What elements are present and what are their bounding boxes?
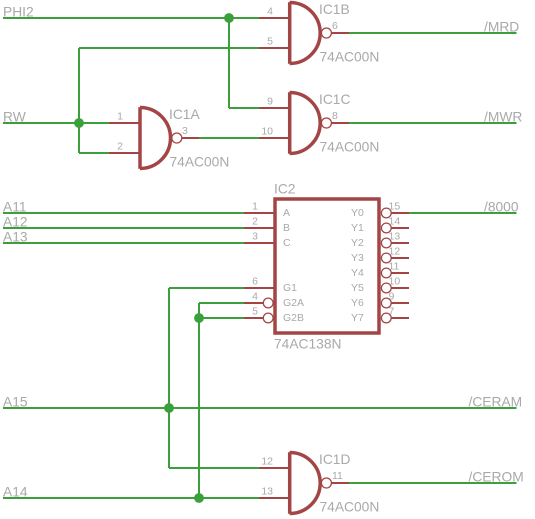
junction A15	[164, 403, 174, 413]
svg-text:Y2: Y2	[351, 237, 364, 249]
svg-text:14: 14	[389, 216, 401, 228]
svg-text:A14: A14	[3, 485, 28, 500]
svg-text:/MWR: /MWR	[484, 110, 522, 125]
pin 10 Y5	[381, 283, 391, 293]
junction PHI2	[224, 13, 234, 23]
svg-text:1: 1	[117, 111, 123, 123]
svg-text:Y5: Y5	[351, 282, 364, 294]
pin 12 Y3	[381, 253, 391, 263]
svg-text:13: 13	[389, 231, 401, 243]
svg-text:11: 11	[389, 261, 400, 273]
svg-text:Y4: Y4	[351, 267, 364, 279]
svg-text:A12: A12	[3, 215, 28, 230]
wire into IC1A pin 2	[79, 152, 110, 154]
wire A14	[3, 497, 260, 499]
svg-text:5: 5	[252, 306, 258, 318]
pin 11 Y4	[381, 268, 391, 278]
svg-text:Y3: Y3	[351, 252, 364, 264]
wire into IC1D pin 12	[169, 467, 260, 469]
gate IC1D 74AC00N	[259, 452, 379, 515]
wire /MWR	[349, 122, 517, 124]
wire vertical RW branch	[78, 48, 80, 153]
junction RW	[74, 118, 84, 128]
pin 9 Y6	[381, 298, 391, 308]
svg-text:6: 6	[332, 20, 338, 32]
pin 14 Y1	[381, 223, 391, 233]
svg-text:13: 13	[261, 486, 273, 498]
wire RW horizontal	[3, 122, 110, 124]
svg-text:C: C	[283, 237, 291, 249]
svg-text:74AC00N: 74AC00N	[170, 155, 230, 170]
svg-text:15: 15	[389, 201, 401, 213]
wire /8000	[409, 212, 517, 214]
svg-text:10: 10	[389, 276, 401, 288]
svg-text:/8000: /8000	[484, 200, 519, 215]
junction G2B	[194, 313, 204, 323]
svg-text:10: 10	[261, 126, 273, 138]
pin 2 B	[244, 227, 274, 229]
svg-text:12: 12	[261, 456, 273, 468]
wire PHI2 vertical to IC1C pin 9	[228, 18, 230, 108]
svg-text:2: 2	[252, 216, 258, 228]
svg-text:74AC00N: 74AC00N	[320, 500, 380, 515]
svg-text:IC1B: IC1B	[319, 2, 350, 17]
wire into IC1C pin 9	[229, 107, 260, 109]
wire A15	[3, 407, 517, 409]
wire A12	[3, 227, 244, 229]
svg-text:8: 8	[332, 110, 338, 122]
svg-text:IC2: IC2	[274, 182, 295, 197]
wire IC1A output to IC1C pin 10	[199, 137, 260, 139]
svg-text:9: 9	[389, 291, 395, 303]
svg-text:Y1: Y1	[351, 222, 364, 234]
svg-text:74AC138N: 74AC138N	[274, 337, 342, 352]
wire G2A vertical down to A14	[198, 303, 200, 498]
svg-text:12: 12	[389, 246, 401, 258]
svg-text:Y0: Y0	[351, 207, 364, 219]
svg-text:4: 4	[267, 6, 273, 18]
svg-text:/MRD: /MRD	[484, 20, 519, 35]
gate IC1B 74AC00N	[259, 2, 379, 65]
pin 5 G2B	[244, 317, 263, 319]
pin 3 C	[244, 242, 274, 244]
svg-text:5: 5	[267, 36, 273, 48]
pin 4 G2A	[244, 302, 263, 304]
pin 15 Y0	[381, 208, 391, 218]
svg-text:3: 3	[182, 125, 188, 137]
pin 13 Y2	[381, 238, 391, 248]
svg-text:4: 4	[252, 291, 258, 303]
svg-text:74AC00N: 74AC00N	[320, 140, 380, 155]
svg-text:IC1A: IC1A	[169, 107, 200, 122]
wire G2B horizontal	[199, 317, 244, 319]
svg-text:6: 6	[252, 276, 258, 288]
svg-text:7: 7	[389, 306, 395, 318]
pin 6 G1	[244, 287, 274, 289]
svg-text:PHI2: PHI2	[3, 5, 34, 20]
pin 1 A	[244, 212, 274, 214]
svg-text:RW: RW	[3, 110, 26, 125]
svg-text:11: 11	[332, 470, 343, 482]
svg-text:74AC00N: 74AC00N	[320, 50, 380, 65]
svg-text:G2A: G2A	[283, 297, 304, 309]
svg-text:B: B	[283, 222, 290, 234]
wire IC1B pin 5 horizontal	[79, 47, 260, 49]
wire G1 vertical down to IC1D pin 12	[168, 288, 170, 468]
wire A11	[3, 212, 244, 214]
svg-text:3: 3	[252, 231, 258, 243]
svg-text:A11: A11	[3, 200, 27, 215]
svg-text:A: A	[283, 207, 290, 219]
svg-text:G2B: G2B	[283, 312, 304, 324]
gate IC1A 74AC00N	[109, 107, 229, 170]
wire A13	[3, 242, 244, 244]
gate IC1C 74AC00N	[259, 92, 379, 155]
wire G1 horizontal	[169, 287, 244, 289]
wire PHI2 horizontal	[3, 17, 260, 19]
wire /CEROM	[349, 482, 517, 484]
junction A14	[194, 493, 204, 503]
wire G2A horizontal	[199, 302, 244, 304]
svg-text:1: 1	[252, 201, 258, 213]
pin 7 Y7	[381, 313, 391, 323]
svg-text:IC1D: IC1D	[319, 452, 350, 467]
svg-text:9: 9	[267, 96, 273, 108]
svg-text:/CERAM: /CERAM	[469, 395, 523, 410]
svg-text:/CEROM: /CEROM	[469, 470, 524, 485]
svg-text:IC1C: IC1C	[319, 92, 350, 107]
decoder IC2 74AC138N	[244, 182, 409, 352]
svg-text:A15: A15	[3, 395, 28, 410]
wire /MRD	[349, 32, 517, 34]
svg-text:G1: G1	[283, 282, 297, 294]
svg-text:A13: A13	[3, 230, 28, 245]
svg-text:Y7: Y7	[351, 312, 364, 324]
svg-text:2: 2	[117, 141, 123, 153]
svg-text:Y6: Y6	[351, 297, 364, 309]
